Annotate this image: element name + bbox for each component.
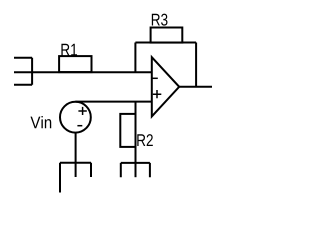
U1 inverting input marker: [153, 77, 158, 79]
ground (R2): [121, 163, 150, 177]
op-amp U1: [152, 57, 179, 116]
label R2: [137, 134, 153, 146]
resistor R1: [59, 56, 91, 72]
ground (Vin): [60, 163, 91, 193]
wire output net: [179, 86, 212, 88]
wire Vin to ground: [75, 133, 77, 177]
wire inverting input net: [14, 71, 152, 73]
label R3: [152, 14, 168, 26]
wire R2 to ground: [135, 102, 137, 178]
label R1: [61, 44, 77, 56]
label Vin: [30, 116, 51, 128]
Vin plus marker: [78, 107, 86, 115]
connector J1: [14, 58, 32, 85]
source Vin: [60, 102, 91, 133]
wire non-inverting input net: [75, 101, 151, 103]
resistor R3: [151, 28, 183, 43]
Vin minus marker: [77, 125, 82, 127]
U1 non-inverting input marker: [153, 90, 162, 98]
wire feedback net: [135, 43, 196, 87]
resistor R2: [120, 114, 135, 147]
